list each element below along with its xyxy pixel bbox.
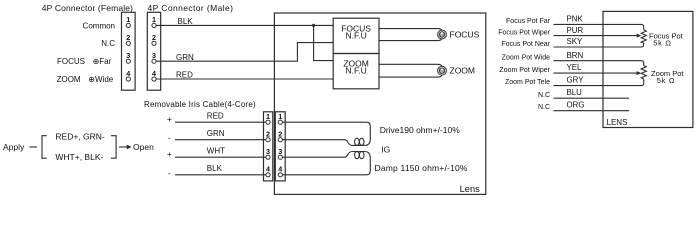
connector J1 (4P female) body: [122, 12, 136, 90]
wire RED (J2 pin4 to ZOOM N.F.U): [156, 78, 333, 80]
svg-text:BLU: BLU: [567, 88, 583, 97]
svg-text:N.F.U: N.F.U: [345, 30, 366, 40]
svg-text:ORG: ORG: [567, 101, 585, 110]
dash from Apply: [30, 146, 38, 148]
svg-text:Damp 1150 ohm+/-10%: Damp 1150 ohm+/-10%: [375, 163, 468, 173]
drive coil L1 loop 1: [355, 138, 360, 145]
potentiometer R1 focus pot zigzag: [641, 30, 646, 43]
svg-text:SKY: SKY: [567, 37, 584, 46]
wire GRN (J2 pin3 to FOCUS N.F.U): [156, 43, 333, 62]
connector J2 pin 3: [152, 51, 156, 63]
svg-text:YEL: YEL: [567, 63, 583, 72]
ZOOM N.F.U unit box: [333, 54, 379, 89]
connector J2 pin 1: [152, 15, 156, 27]
svg-text:Open: Open: [133, 142, 154, 152]
iris wire BLK: [175, 174, 266, 176]
svg-text:GRY: GRY: [567, 76, 585, 85]
svg-text:WHT: WHT: [207, 146, 225, 155]
svg-text:N.C: N.C: [538, 104, 550, 111]
svg-text:5k Ω: 5k Ω: [653, 38, 671, 47]
svg-text:GRN: GRN: [176, 53, 194, 62]
connector J2 pin 2: [152, 33, 156, 45]
svg-text:-: -: [168, 168, 171, 178]
svg-text:IG: IG: [381, 145, 390, 155]
iris connector J4 pin 2: [278, 130, 282, 142]
wire BLK (J2 pin1 to FOCUS N.F.U): [156, 24, 333, 26]
svg-text:+: +: [167, 149, 172, 159]
svg-text:Drive190 ohm+/-10%: Drive190 ohm+/-10%: [380, 125, 461, 135]
potentiometer R2 zoom pot zigzag: [641, 66, 646, 80]
svg-text:WHT+, BLK-: WHT+, BLK-: [55, 152, 103, 162]
iris wire WHT: [175, 156, 266, 158]
junction on BLK wire: [312, 24, 315, 27]
wire ZOOM N.F.U to zoom motor (upper): [379, 64, 442, 66]
svg-text:N.F.U: N.F.U: [345, 66, 366, 76]
svg-text:RED: RED: [207, 111, 224, 120]
svg-text:Focus Pot Wiper: Focus Pot Wiper: [498, 29, 550, 36]
svg-text:FOCUS: FOCUS: [57, 57, 85, 66]
iris connector J3 (cable side) body: [264, 112, 273, 181]
iris connector J3 pin 3: [266, 147, 270, 159]
svg-text:Focus Pot Far: Focus Pot Far: [506, 18, 551, 25]
iris connector J3 pin 4: [266, 165, 270, 177]
wire FOCUS N.F.U to focus motor (upper): [379, 29, 442, 31]
wire PUR to focus pot wiper arrow: [554, 34, 642, 38]
svg-text:PNK: PNK: [567, 14, 584, 23]
svg-text:FOCUS: FOCUS: [450, 29, 480, 39]
wire FOCUS N.F.U to focus motor (lower): [379, 39, 442, 41]
svg-text:GRN: GRN: [207, 129, 225, 138]
damp coil L2 loop 2: [359, 152, 364, 159]
svg-text:Apply: Apply: [3, 142, 25, 152]
svg-text:Lens: Lens: [460, 184, 481, 194]
wire BLU (not connected): [554, 97, 630, 99]
svg-text:LENS: LENS: [607, 118, 628, 127]
Lens enclosure box: [274, 13, 485, 194]
svg-text:BLK: BLK: [178, 17, 194, 26]
connector J1 pin 2: [126, 33, 130, 45]
wire GRY to zoom pot bottom: [554, 79, 644, 86]
svg-text:Focus Pot Near: Focus Pot Near: [501, 41, 550, 48]
FOCUS N.F.U unit box: [333, 18, 379, 53]
wire J4 pin2 to drive coil left end: [283, 140, 365, 146]
wire PNK to focus pot top: [554, 24, 644, 29]
svg-text:Zoom Pot Wiper: Zoom Pot Wiper: [499, 67, 550, 74]
wire branch junction to ZOOM N.F.U: [314, 25, 334, 60]
damp coil L2 loop 1: [355, 152, 360, 159]
svg-text:-: -: [168, 133, 171, 143]
svg-text:5k Ω: 5k Ω: [657, 76, 675, 85]
connector J2 pin 4: [152, 69, 156, 81]
svg-text:BLK: BLK: [207, 164, 223, 173]
right bracket of apply group: [111, 136, 116, 159]
iris connector J3 pin 1: [266, 112, 270, 124]
svg-text:Removable Iris Cable(4-Core): Removable Iris Cable(4-Core): [144, 100, 256, 109]
arrow to Open: [119, 145, 132, 150]
motor M1 (focus): [438, 30, 447, 39]
iris connector J4 pin 3: [278, 147, 282, 159]
drive coil L1 loop 2: [359, 138, 364, 145]
svg-text:PUR: PUR: [567, 26, 584, 35]
svg-text:N.C: N.C: [538, 92, 550, 99]
svg-text:M: M: [440, 32, 444, 37]
svg-text:+: +: [167, 114, 172, 124]
iris connector J3 pin 2: [266, 130, 270, 142]
wire ORG (not connected): [554, 110, 630, 112]
wire ZOOM N.F.U to zoom motor (lower): [379, 75, 442, 77]
svg-text:Common: Common: [83, 21, 115, 30]
iris wire RED: [175, 121, 266, 123]
svg-text:⊕Far: ⊕Far: [93, 57, 112, 66]
svg-text:Zoom Pot Tele: Zoom Pot Tele: [505, 79, 550, 86]
svg-text:4P Connector (Male): 4P Connector (Male): [148, 3, 234, 13]
LENS enclosure box (right): [603, 11, 693, 127]
svg-text:BRN: BRN: [567, 51, 584, 60]
svg-text:RED+, GRN-: RED+, GRN-: [55, 132, 105, 142]
iris wire GRN: [175, 139, 266, 141]
iris connector J4 (lens side) body: [275, 112, 285, 181]
svg-text:⊕Wide: ⊕Wide: [88, 75, 113, 84]
connector J1 pin 3: [126, 51, 130, 63]
left bracket of apply group: [42, 136, 47, 159]
motor M2 (zoom): [438, 66, 447, 75]
connector J1 pin 1: [126, 15, 130, 27]
svg-text:N.C: N.C: [101, 39, 115, 48]
svg-text:Zoom Pot Wide: Zoom Pot Wide: [502, 55, 550, 62]
connector J2 (4P male) body: [147, 12, 160, 90]
wire YEL to zoom pot wiper arrow: [554, 71, 642, 75]
wire J4 pin1 to drive coil right end: [283, 122, 371, 145]
svg-text:ZOOM: ZOOM: [57, 75, 81, 84]
wire BRN to zoom pot top: [554, 61, 644, 66]
svg-text:ZOOM: ZOOM: [450, 66, 476, 76]
wire J4 pin4 to damp coil right end: [283, 152, 371, 175]
wire J4 pin3 to damp coil left end: [283, 152, 365, 158]
svg-text:M: M: [440, 69, 444, 74]
wire SKY to focus pot bottom: [554, 43, 644, 47]
connector J1 pin 4: [126, 69, 130, 81]
svg-text:RED: RED: [176, 71, 193, 80]
iris connector J4 pin 1: [278, 112, 282, 124]
svg-text:4P Connector (Female): 4P Connector (Female): [42, 3, 133, 13]
iris connector J4 pin 4: [278, 165, 282, 177]
